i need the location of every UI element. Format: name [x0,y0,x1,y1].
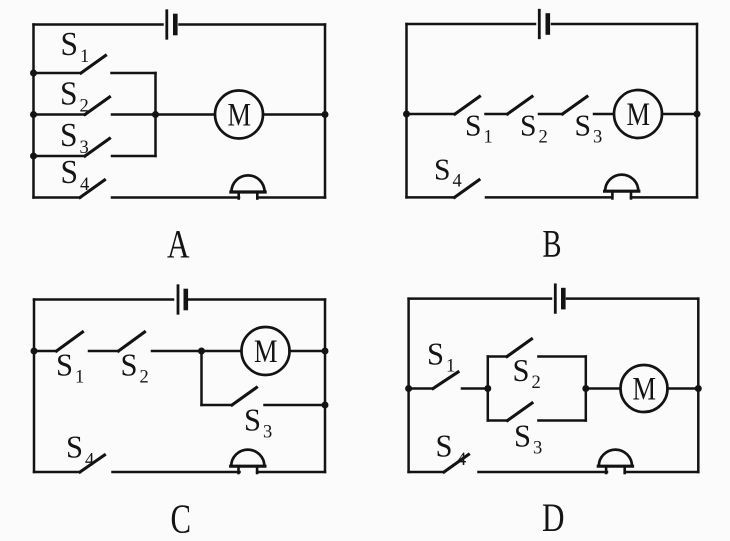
junction node: D node left of parallel pair [484,385,491,392]
battery (C) [178,286,186,314]
wire: D motor right lead [668,387,699,390]
label S1 [56,347,84,388]
junction node: A bus / motor lead [152,111,159,118]
label S2 [121,347,149,388]
svg-text:3: 3 [593,128,602,148]
svg-text:S: S [427,336,444,372]
label S4 [61,154,90,195]
label S4 [434,152,462,192]
svg-text:4: 4 [457,450,466,470]
wire: A parallel bus vertical [154,73,157,156]
bell (C) [231,450,265,473]
svg-text:S: S [244,402,261,438]
wire: D S3 branch right lead [538,419,585,422]
wire: D bottom rail mid [479,471,608,474]
wire: B series lead 1 [407,113,456,116]
junction node: B right rail / series branch [694,111,701,118]
junction node: A left rail / S2 branch [30,111,37,118]
junction node: D left rail / main branch [405,385,412,392]
bell (A) [231,175,265,198]
junction node: A left rail / S3 branch [30,153,37,160]
svg-text:2: 2 [539,128,548,148]
junction node: D right rail / motor branch [695,385,702,392]
battery (D) [555,285,563,313]
junction node: C left rail / main branch [31,348,38,355]
junction node: A left rail / S1 branch [30,70,37,77]
bell (D) [598,450,632,473]
svg-text:B: B [543,223,562,266]
svg-text:S: S [60,76,78,113]
svg-text:2: 2 [532,373,541,393]
wire: A motor right lead [263,113,325,116]
switch S2 (D), open blade [507,339,532,357]
svg-text:3: 3 [80,138,89,158]
switch S2 (C), open blade [119,332,145,351]
svg-text:1: 1 [75,368,84,388]
svg-text:3: 3 [533,439,542,459]
motor M (A) [215,91,263,139]
svg-text:M: M [228,98,252,134]
wire: D top rail right of battery [567,297,698,300]
wire: C top rail right of battery [188,298,325,301]
wire: D main lead 1 [409,387,433,390]
wire: C left rail [33,300,36,473]
label S4 [66,429,94,471]
label S3 [60,117,89,158]
svg-text:2: 2 [140,368,149,388]
svg-text:S: S [434,152,451,187]
wire: C bottom rail mid [113,471,240,474]
wire: A bottom rail mid [112,196,239,199]
wire: B bottom rail mid [486,196,612,199]
wire: C main lead 1 [34,350,57,353]
junction node: C node main/S3 [198,348,205,355]
label S3 [244,402,272,443]
label S3 [575,108,603,148]
svg-text:S: S [436,428,453,464]
svg-text:S: S [61,154,79,191]
wire: C main lead 3 [152,350,202,353]
wire: D bottom rail left [409,471,444,474]
wire: C main lead 2 [89,350,119,353]
battery (B) [539,10,548,38]
wire: B bottom rail left [407,196,455,199]
motor M (D) [621,365,668,412]
wire: D parallel left vertical [487,357,490,421]
svg-text:S: S [575,108,592,143]
bell (B) [605,175,639,199]
wire: C motor left lead [202,350,242,353]
switch S4 (A), open blade [80,180,105,198]
label S3 [514,418,542,459]
wire: D S2 branch right lead [538,355,585,358]
svg-text:S: S [465,108,482,143]
wire: A S2 branch right lead [112,113,156,116]
switch S1 (C), open blade [57,332,83,351]
svg-text:4: 4 [453,172,462,192]
wire: D S2 branch left lead [488,355,507,358]
wire: D bottom rail right [625,471,699,474]
motor M (B) [614,90,662,138]
wire: A S1 branch right lead [112,72,156,75]
wire: C bottom rail right [257,471,325,474]
svg-text:M: M [633,372,657,408]
wire: C S3 branch left lead [202,404,233,407]
svg-text:4: 4 [80,175,89,195]
wire: A right rail [324,25,327,198]
wire: D right rail [697,299,700,472]
svg-text:1: 1 [80,47,89,67]
wire: A left rail [32,25,35,198]
junction node: C right rail / S3 branch [322,402,329,409]
svg-text:4: 4 [85,451,94,471]
switch S1 (B), open blade [455,97,480,115]
wire: A S1 branch left lead [34,72,82,75]
svg-text:S: S [60,117,78,154]
svg-text:S: S [56,347,73,383]
switch S3 (D), open blade [508,403,533,421]
label S4 [436,428,467,471]
battery (A) [167,11,176,39]
svg-text:A: A [167,222,190,267]
wire: A S3 branch right lead [112,155,156,158]
wire: B right rail [696,24,699,197]
switch S3 (C), open blade [232,388,257,406]
label S1 [465,108,493,148]
label S2 [513,352,541,393]
wire: B top rail left of battery [407,23,536,26]
wire: A top rail right of battery [180,23,326,26]
svg-text:2: 2 [80,97,89,117]
wire: B series lead 2 [486,113,508,116]
wire: A S2 branch left lead [34,113,86,116]
junction node: A right rail / motor branch [322,111,329,118]
switch S2 (B), open blade [508,97,533,115]
wire: B top rail right of battery [552,23,697,26]
wire: D S3 branch left lead [488,419,508,422]
wire: C right rail [324,300,327,473]
switch S4 (B), open blade [455,180,480,198]
wire: B bottom rail right [631,196,697,199]
wire: B series lead 3 [539,113,563,116]
wire: D motor left lead [586,387,621,390]
wire: D parallel right vertical [585,357,588,421]
svg-text:D: D [542,495,565,540]
switch S4 (C), open blade [80,455,105,472]
wire: B left rail [405,24,408,197]
label S2 [520,108,548,148]
wire: A motor left lead [156,113,216,116]
switch S1 (A), open blade [81,56,106,74]
wire: B motor right lead [662,113,697,116]
label S1 [427,336,455,377]
switch S4 (D), open blade [444,455,469,473]
svg-text:S: S [61,26,79,63]
wire: A bottom rail left [34,196,81,199]
switch S3 (A), open blade [85,139,110,157]
wire: D top rail left of battery [409,297,551,300]
label S2 [60,76,89,117]
svg-text:M: M [254,334,278,370]
wire: C S3 branch drop [200,351,203,405]
svg-text:S: S [514,418,531,454]
switch S3 (B), open blade [563,97,588,115]
svg-text:1: 1 [446,357,455,377]
svg-text:3: 3 [263,423,272,443]
wire: A bottom rail right [257,196,325,199]
wire: C S3 branch right lead [265,404,326,407]
wire: C bottom rail left [34,471,80,474]
svg-text:1: 1 [484,128,493,148]
switch S1 (D), open blade [433,372,458,389]
wire: C motor right lead [290,350,326,353]
svg-text:S: S [121,347,138,383]
switch S2 (A), open blade [85,97,110,115]
motor M (C) [242,327,290,375]
junction node: C right rail / motor branch [322,348,329,355]
wire: C top rail left of battery [34,298,173,301]
junction node: D node right of parallel pair [582,385,589,392]
svg-text:S: S [66,429,83,465]
wire: D main lead 2 [462,387,488,390]
svg-text:C: C [171,496,192,541]
svg-text:S: S [520,108,537,143]
svg-text:S: S [513,352,530,388]
wire: B motor left lead [594,113,614,116]
wire: D left rail [407,299,410,472]
junction node: B left rail / series branch [403,111,410,118]
svg-text:M: M [627,97,651,133]
label S1 [61,26,90,67]
wire: A top rail left of battery [34,23,163,26]
wire: A S3 branch left lead [34,155,86,158]
